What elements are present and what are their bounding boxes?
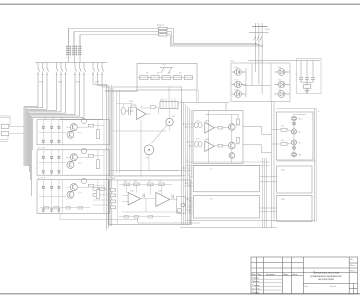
title block left column rows bbox=[251, 279, 282, 290]
diode row A channel 2 bbox=[42, 156, 60, 158]
fuse FU3 bbox=[159, 34, 168, 36]
title block left labels bbox=[252, 278, 261, 294]
svg-text:R21: R21 bbox=[281, 126, 284, 128]
svg-text:C1: C1 bbox=[44, 118, 46, 120]
contact group 4 bbox=[92, 63, 104, 85]
node junctions on phases bbox=[255, 43, 263, 47]
channel box 1 (pulse former A1) bbox=[37, 120, 110, 145]
resistor v channel 1 bbox=[96, 130, 99, 139]
resistor R row inside bbox=[140, 76, 193, 80]
svg-text:FU1-3: FU1-3 bbox=[157, 24, 164, 27]
bus tick connections into K boxes bbox=[184, 168, 194, 213]
thyristor VS4 bbox=[275, 69, 290, 76]
left wires channel 3 bbox=[39, 180, 66, 214]
output transistor circles bbox=[177, 208, 182, 213]
svg-text:Т. контр.: Т. контр. bbox=[252, 285, 260, 287]
collector wires and small resistors bbox=[205, 115, 240, 164]
capacitor C3 bbox=[311, 78, 315, 82]
three-phase input L1 L2 L3 top right bbox=[249, 23, 269, 61]
top row resistors bbox=[124, 183, 164, 186]
resistor into signal box 1 bbox=[281, 128, 287, 131]
channel box3 extra bottom parts bbox=[44, 207, 83, 210]
capacitor C1 bbox=[299, 78, 303, 82]
feedback caps bbox=[143, 194, 145, 198]
svg-text:Лист: Лист bbox=[257, 274, 261, 276]
vertical bus x181-191 bbox=[182, 100, 192, 225]
small contact marks on bus left of K boxes bbox=[189, 169, 191, 213]
lamp HL2 bbox=[291, 140, 296, 145]
svg-text:a1: a1 bbox=[186, 160, 188, 162]
wires K boxes right to right column bbox=[260, 177, 277, 212]
misc wires middle box bbox=[117, 104, 179, 171]
pulse box inner divider bbox=[208, 111, 210, 164]
vertical bus right of K boxes bbox=[263, 158, 267, 228]
transistor VT3 bbox=[229, 153, 235, 159]
fuse FU2 bbox=[159, 30, 168, 32]
wire phase C bbox=[261, 23, 263, 61]
bus y60.5 feeding rectifier and snubber bbox=[248, 60, 320, 62]
svg-text:TV1: TV1 bbox=[196, 121, 199, 123]
wire drops from groups 1-3 into left staircase bundle bbox=[24, 79, 84, 196]
wire below channel box3 bbox=[60, 213, 138, 219]
diode row A channel 3 bbox=[42, 186, 60, 188]
capacitor at op-amp input bbox=[126, 107, 133, 115]
svg-text:R22: R22 bbox=[281, 140, 284, 142]
wires transformer to fuses bbox=[69, 28, 159, 34]
thyristor VS2 bbox=[232, 81, 247, 88]
svg-text:DA4: DA4 bbox=[205, 120, 209, 123]
parts left of control box bbox=[93, 188, 105, 197]
svg-text:R2: R2 bbox=[146, 73, 148, 75]
far-left terminal wires bbox=[0, 116, 24, 142]
resistor v channel 2 bbox=[96, 160, 99, 169]
contact group 2 bbox=[56, 63, 68, 80]
lamp circle top channel 1 bbox=[81, 118, 86, 123]
input pulse transformer 1 bbox=[194, 122, 198, 128]
middle block box bbox=[113, 87, 182, 176]
svg-text:C2: C2 bbox=[52, 118, 54, 120]
wires from fuses to phase verticals bbox=[167, 28, 262, 46]
resistor h channel 1 bbox=[88, 124, 93, 127]
control box (regulator) bbox=[109, 180, 191, 224]
svg-text:на тиристорах: на тиристорах bbox=[318, 278, 335, 281]
lamp circle top channel 2 bbox=[81, 148, 86, 153]
thyristor VS1 bbox=[232, 69, 247, 76]
resistor v channel 3 bbox=[96, 190, 99, 199]
sheet bottom border bbox=[0, 293, 360, 295]
svg-text:№ докум.: № докум. bbox=[266, 273, 275, 276]
svg-text:Н. контр.: Н. контр. bbox=[252, 288, 261, 290]
lamp circle top channel 3 bbox=[81, 178, 86, 183]
op-amp A4 bbox=[156, 193, 170, 207]
wire phase A bbox=[255, 23, 257, 61]
wire linking resistor row bbox=[138, 77, 193, 79]
capacitor C2 bbox=[305, 78, 309, 82]
snubber box bbox=[297, 59, 322, 94]
diode row A channel 1 bbox=[42, 126, 60, 128]
terminal resistor 1 bbox=[1, 124, 9, 128]
input winding oval bbox=[121, 107, 125, 114]
wire signal box bottom to edge bbox=[277, 160, 317, 162]
channel box 3 (pulse former A3) bbox=[37, 180, 110, 214]
transistor VT3b bbox=[67, 191, 74, 198]
labels control box bbox=[124, 181, 163, 192]
drive machine circle M bbox=[144, 145, 154, 155]
svg-text:KM4: KM4 bbox=[95, 82, 99, 84]
svg-text:Изм: Изм bbox=[252, 274, 256, 276]
diode row B channel 2 bbox=[42, 171, 60, 173]
bundle right-turn to middle vertical bus bbox=[93, 82, 112, 230]
middle box inner wires left bbox=[113, 90, 166, 176]
wires opamp to transistors bbox=[214, 126, 228, 147]
tiny labels in signal box bbox=[281, 118, 302, 157]
middle box bottom double edge bbox=[109, 170, 186, 172]
labels VS bbox=[234, 67, 282, 91]
svg-text:R3: R3 bbox=[157, 73, 159, 75]
svg-text:KM2: KM2 bbox=[281, 199, 285, 201]
svg-text:QS1: QS1 bbox=[230, 61, 234, 63]
contact group 3 bbox=[74, 63, 86, 80]
transformer T1 primary wires bbox=[69, 28, 81, 45]
svg-text:Разраб.: Разраб. bbox=[252, 278, 260, 280]
svg-text:KM2: KM2 bbox=[58, 82, 62, 84]
feedback resistor bbox=[151, 106, 156, 109]
resistor into signal box 2 bbox=[281, 143, 287, 146]
rectifier box VS1-VS6 bbox=[231, 63, 290, 102]
svg-text:Лист: Лист bbox=[305, 286, 309, 288]
connector block pins up bbox=[163, 87, 175, 102]
wires bus to transformers bbox=[184, 124, 195, 146]
svg-text:DA5: DA5 bbox=[205, 138, 209, 141]
transistor VT2a bbox=[70, 154, 77, 161]
signal chain vertical wire bbox=[293, 116, 295, 159]
resistor chain box (field rheostat) bbox=[137, 64, 197, 91]
svg-text:Лит.: Лит. bbox=[350, 259, 354, 261]
wire T1 secondaries down to distribution line bbox=[69, 56, 81, 63]
fuse FU1 bbox=[159, 27, 168, 29]
document title text bbox=[310, 272, 342, 282]
op-amp A3 bbox=[128, 193, 141, 206]
resistor at op-amp input bbox=[131, 105, 136, 108]
connector block (pin row) bbox=[160, 102, 178, 109]
svg-text:KM3: KM3 bbox=[76, 82, 80, 84]
svg-text:Подп.: Подп. bbox=[283, 274, 289, 276]
left wires channel 2 bbox=[39, 150, 66, 175]
right column box 3 bbox=[277, 195, 312, 221]
mechanical link diagonal bbox=[152, 125, 168, 144]
svg-text:R5: R5 bbox=[179, 73, 181, 75]
wires channel 2 right bbox=[66, 150, 104, 175]
bell HA2 bbox=[292, 152, 296, 156]
wires channel 1 right bbox=[66, 120, 104, 145]
sheet top border bbox=[0, 3, 360, 5]
tap switch chevrons bbox=[160, 68, 173, 74]
op-amp DA1 bbox=[137, 109, 146, 120]
left input resistor stack bbox=[111, 188, 116, 209]
vertical bus pair from rectifier down right side bbox=[271, 102, 273, 229]
right column outer edge double line bbox=[314, 109, 316, 223]
channel box 2 (pulse former A2) bbox=[37, 150, 110, 175]
switch QS1 blades bbox=[254, 36, 256, 41]
transistor VT1a bbox=[70, 124, 77, 131]
svg-text:TV2: TV2 bbox=[196, 139, 199, 141]
wire phase B bbox=[258, 23, 260, 61]
svg-text:KM1: KM1 bbox=[39, 82, 43, 84]
svg-text:XT1: XT1 bbox=[160, 100, 163, 102]
wire pair below resistor box bbox=[196, 90, 198, 103]
bus junction dots bbox=[183, 123, 190, 210]
svg-text:Провер.: Провер. bbox=[252, 281, 260, 283]
relay box K2 (empty box 2) bbox=[193, 196, 259, 219]
bell HA1 bbox=[292, 116, 296, 120]
wire single drop from group4 to box1 bbox=[60, 87, 103, 119]
wires channel 3 right bbox=[66, 180, 104, 214]
svg-text:A2 1998: A2 1998 bbox=[38, 177, 46, 180]
lamp HL1 bbox=[291, 129, 296, 134]
snubber bottom bus bbox=[301, 81, 313, 83]
svg-text:~380B: ~380B bbox=[264, 29, 270, 31]
output bracket 1 to right column bbox=[243, 126, 272, 134]
right column signal box HL bbox=[277, 112, 314, 160]
terminal crossbar bbox=[252, 26, 268, 28]
title block frame bbox=[251, 257, 358, 294]
pulse amplifier outer box bbox=[193, 111, 243, 164]
svg-text:Масса: Масса bbox=[350, 265, 355, 267]
thyristor VS6 bbox=[275, 91, 290, 98]
input pulse transformer 2 bbox=[194, 141, 198, 147]
svg-text:KM1: KM1 bbox=[281, 170, 285, 172]
resistor R0 bbox=[303, 85, 311, 88]
svg-text:Утверд.: Утверд. bbox=[252, 292, 260, 294]
resistor h channel 2 bbox=[88, 154, 93, 157]
transistor VT3a bbox=[70, 184, 77, 191]
transistor VT1b bbox=[67, 131, 74, 138]
wire under rectifier y102.5 bbox=[184, 103, 226, 111]
left wires channel 1 bbox=[39, 120, 66, 145]
op-amp A1 bbox=[205, 122, 215, 133]
title block right cells text bbox=[305, 259, 357, 288]
svg-text:C3: C3 bbox=[60, 118, 62, 120]
title block header tiny text bbox=[252, 273, 298, 276]
output stage small box bbox=[177, 197, 186, 214]
svg-text:Масшт.: Масшт. bbox=[350, 271, 356, 273]
top row wire bbox=[119, 183, 172, 185]
thyristor VS5 bbox=[275, 81, 290, 88]
svg-text:HA2: HA2 bbox=[298, 154, 302, 157]
contact group 1 (QF contacts) bbox=[37, 63, 49, 80]
terminal resistor 2 bbox=[1, 131, 9, 135]
ground bbox=[305, 88, 310, 93]
svg-text:A1 1998: A1 1998 bbox=[38, 147, 46, 150]
wires opamps bbox=[122, 184, 180, 212]
right column box 2 bbox=[277, 166, 312, 193]
tiny labels sprinkle bbox=[39, 29, 320, 201]
wire connector to pulse box bbox=[178, 102, 184, 104]
svg-text:Ld: Ld bbox=[295, 74, 297, 76]
wire rectifier bottom drop bbox=[226, 102, 229, 103]
distribution line y62.5 bbox=[35, 62, 107, 64]
bottom row small parts bbox=[124, 216, 153, 219]
resistor h channel 3 bbox=[88, 184, 93, 187]
rectifier inner divider bbox=[270, 63, 272, 102]
svg-text:Листов: Листов bbox=[330, 286, 336, 288]
transistor VT2b bbox=[67, 161, 74, 168]
diode row B channel 1 bbox=[42, 140, 60, 142]
transformer T1 windings bbox=[66, 45, 82, 56]
rectifier internal bus bbox=[243, 63, 271, 98]
wire gray link box to bundle bbox=[105, 90, 138, 92]
relay box K1 (empty box 1) bbox=[193, 166, 259, 192]
synchro machine circle bbox=[166, 118, 173, 125]
control box inner divider bbox=[117, 180, 119, 224]
svg-text:сигнализация: сигнализация bbox=[293, 114, 306, 116]
svg-text:HL2: HL2 bbox=[298, 143, 301, 145]
svg-text:HL1: HL1 bbox=[298, 132, 301, 134]
thyristor VS3 bbox=[232, 91, 247, 98]
diode row B channel 3 bbox=[42, 209, 60, 211]
svg-text:VT5: VT5 bbox=[236, 144, 239, 146]
transistor VT2 bbox=[229, 142, 236, 149]
snubber wires bbox=[301, 61, 313, 78]
transistor VT1 bbox=[229, 124, 236, 131]
output bracket 2 bbox=[243, 145, 272, 153]
svg-text:HA1: HA1 bbox=[298, 118, 302, 121]
lamp small 2 bbox=[292, 146, 295, 149]
svg-text:R4: R4 bbox=[168, 73, 170, 75]
svg-text:VT4: VT4 bbox=[236, 125, 239, 127]
horizontal link wires above empty boxes bbox=[186, 161, 270, 163]
bottom bus lines bbox=[186, 220, 315, 222]
wires into rectifier bbox=[256, 61, 262, 95]
op-amp A2 bbox=[205, 141, 215, 152]
lamp small bbox=[292, 122, 295, 125]
